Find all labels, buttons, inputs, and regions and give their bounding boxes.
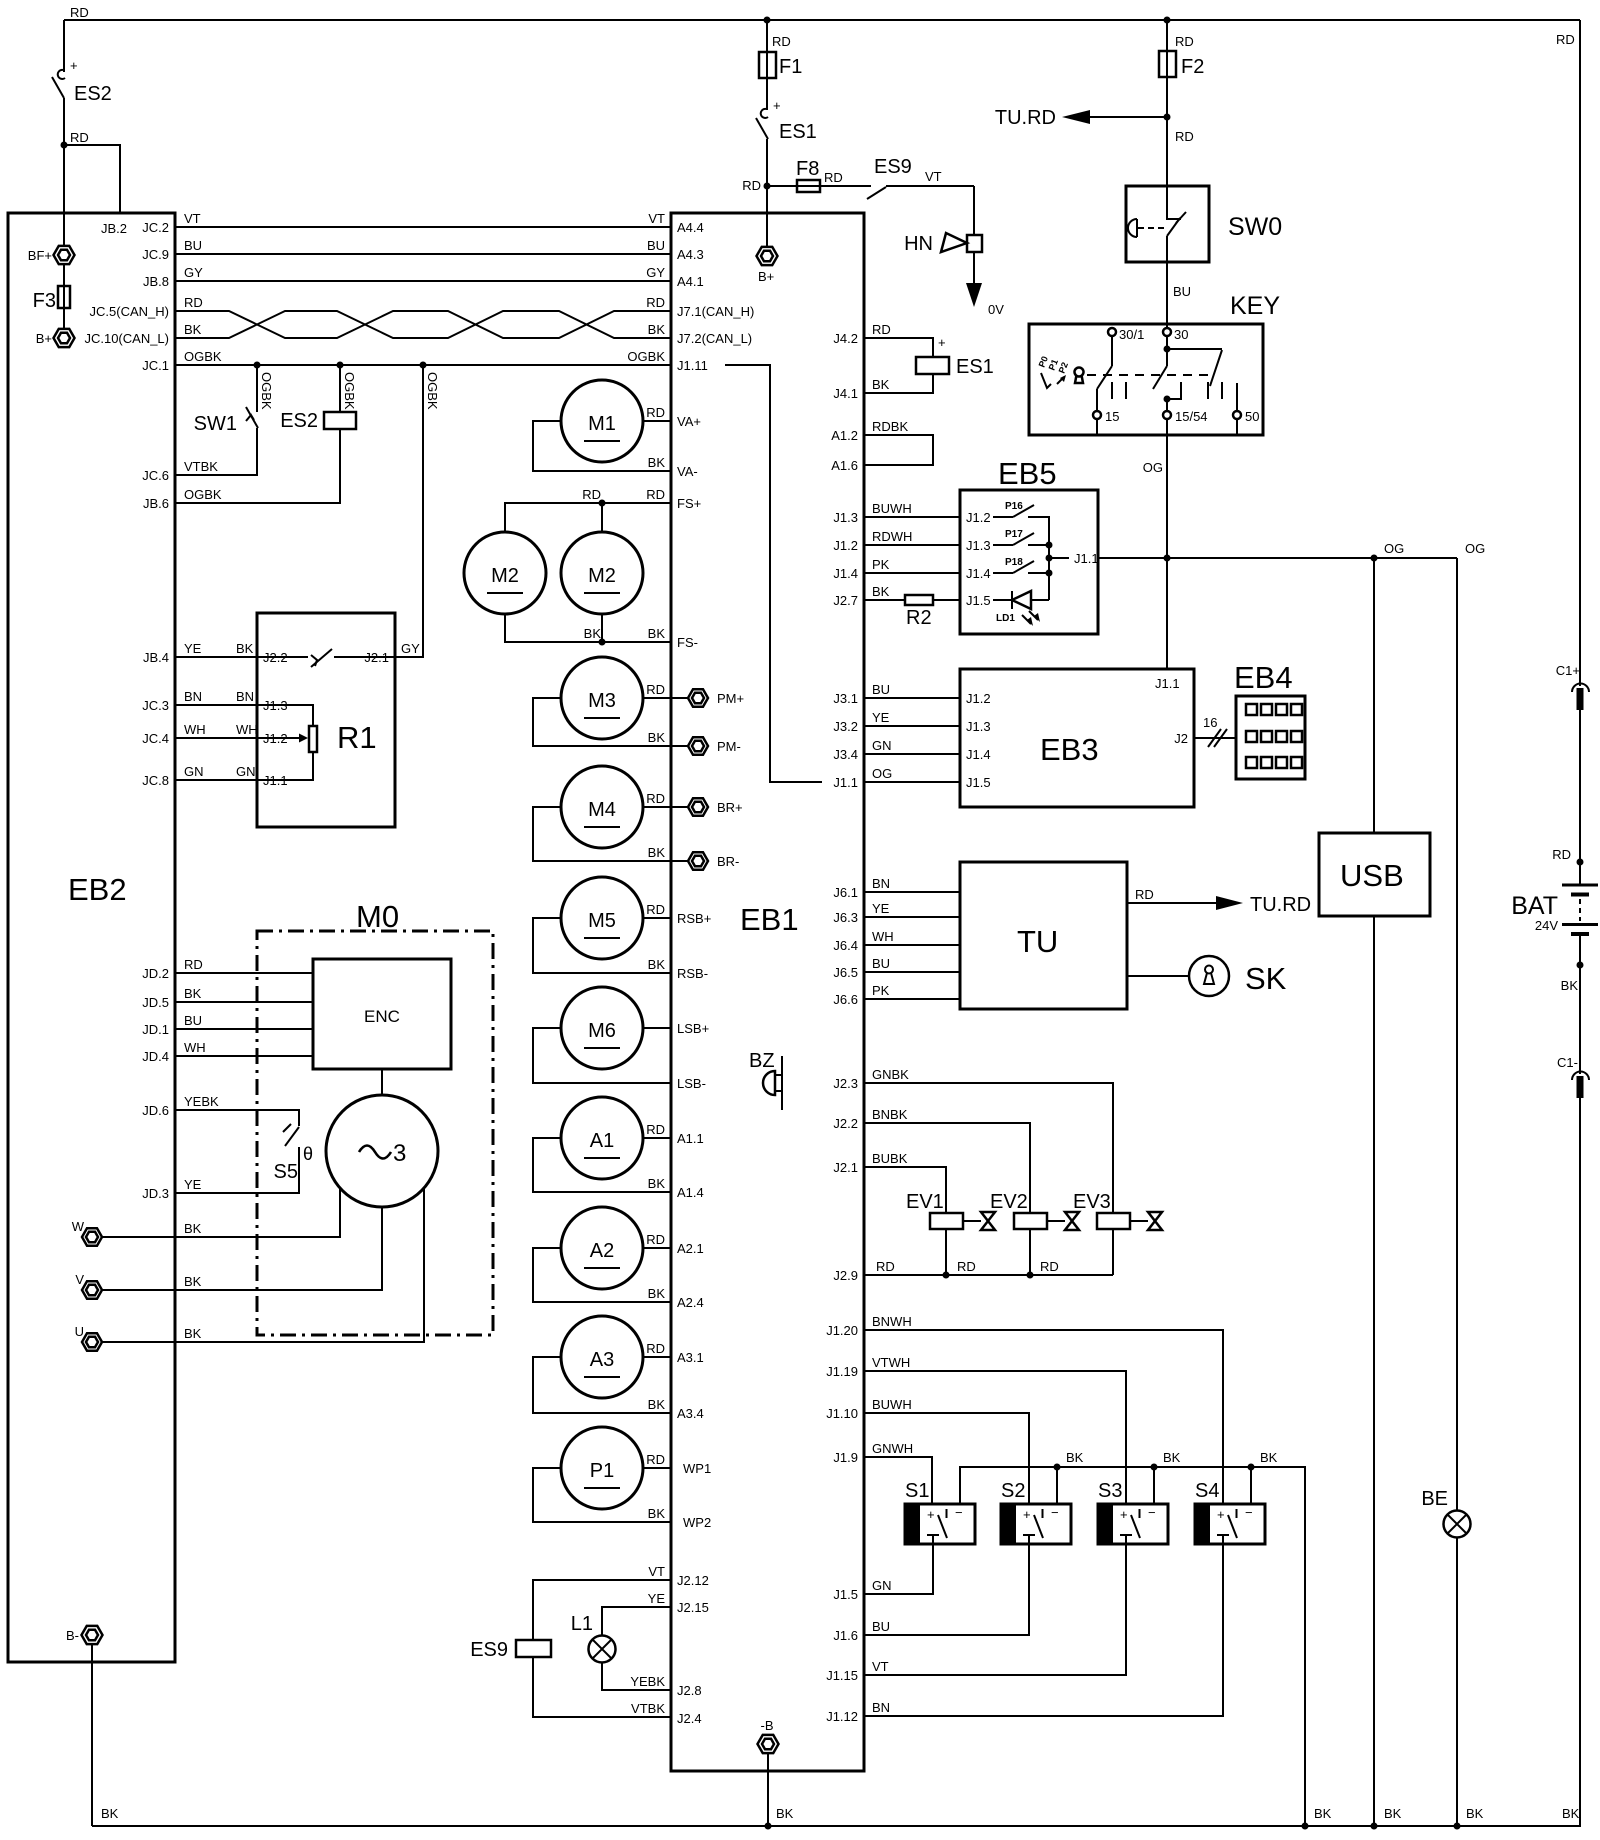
junction ES2 branch: [61, 142, 68, 149]
svg-text:RD: RD: [70, 130, 89, 145]
svg-text:J1.1: J1.1: [263, 773, 288, 788]
svg-text:F2: F2: [1181, 56, 1204, 78]
bolt BR-: [688, 852, 739, 869]
svg-text:J2.2: J2.2: [263, 650, 288, 665]
svg-text:ES2: ES2: [74, 83, 112, 105]
svg-text:RD: RD: [872, 322, 891, 337]
svg-text:JD.6: JD.6: [142, 1103, 169, 1118]
svg-text:FS-: FS-: [677, 635, 698, 650]
LED LD1: [993, 591, 1049, 626]
svg-text:J1.2: J1.2: [263, 731, 288, 746]
ECU box EB2: [8, 213, 175, 1662]
encoder ENC box: [313, 959, 451, 1069]
svg-text:PM+: PM+: [717, 691, 744, 706]
svg-text:J4.1: J4.1: [833, 386, 858, 401]
lamp L1: [571, 1591, 709, 1698]
svg-text:BU: BU: [184, 1013, 202, 1028]
svg-text:RDWH: RDWH: [872, 529, 912, 544]
svg-text:RD: RD: [646, 1341, 665, 1356]
svg-text:GN: GN: [872, 1578, 892, 1593]
svg-text:GN: GN: [236, 764, 256, 779]
svg-text:ES9: ES9: [470, 1639, 508, 1661]
svg-text:BNBK: BNBK: [872, 1107, 908, 1122]
svg-text:BNWH: BNWH: [872, 1314, 912, 1329]
wire U phase BK: [102, 1189, 424, 1342]
svg-text:EB5: EB5: [998, 456, 1057, 491]
svg-text:+: +: [70, 58, 78, 73]
svg-text:GNWH: GNWH: [872, 1441, 913, 1456]
svg-text:BK: BK: [1562, 1806, 1580, 1821]
bolt PM+: [688, 689, 744, 706]
svg-text:BK: BK: [872, 377, 890, 392]
thermal switch S5: [142, 1094, 313, 1201]
junction battery -: [1561, 962, 1584, 994]
switch SW1: [142, 365, 274, 483]
svg-text:JC.3: JC.3: [142, 698, 169, 713]
fuse F3: [33, 264, 70, 328]
svg-text:BU: BU: [872, 682, 890, 697]
fuse F1: [759, 20, 802, 110]
svg-text:M4: M4: [588, 799, 616, 821]
svg-text:VT: VT: [925, 169, 942, 184]
svg-text:BK: BK: [648, 1506, 666, 1521]
wire ENC to motor: [381, 1069, 383, 1095]
svg-text:BK: BK: [1561, 978, 1579, 993]
svg-text:30: 30: [1174, 327, 1188, 342]
svg-text:JC.2: JC.2: [142, 220, 169, 235]
wire BU J3.1 to EB3 J1.2: [833, 682, 990, 706]
svg-text:LSB-: LSB-: [677, 1076, 706, 1091]
svg-text:TU.RD: TU.RD: [995, 107, 1056, 129]
svg-text:J1.20: J1.20: [826, 1323, 858, 1338]
wire BK JD.5 to ENC: [142, 986, 313, 1010]
svg-text:BN: BN: [236, 689, 254, 704]
bolt B+ (EB1): [757, 247, 778, 284]
KEY terminal 15: [1093, 409, 1119, 435]
svg-text:RD: RD: [646, 791, 665, 806]
svg-text:BK: BK: [648, 322, 666, 337]
svg-text:A1.1: A1.1: [677, 1131, 704, 1146]
svg-text:J2: J2: [1174, 731, 1188, 746]
svg-text:RD: RD: [1135, 887, 1154, 902]
svg-text:A1.4: A1.4: [677, 1185, 704, 1200]
svg-text:BK: BK: [648, 1397, 666, 1412]
svg-text:RD: RD: [646, 902, 665, 917]
svg-text:JC.4: JC.4: [142, 731, 169, 746]
KEY pole 3: [1167, 349, 1237, 411]
svg-text:J1.3: J1.3: [833, 510, 858, 525]
svg-text:OG: OG: [1384, 541, 1404, 556]
svg-text:RD: RD: [184, 957, 203, 972]
key switch SW0: [1126, 186, 1282, 262]
svg-text:A2: A2: [590, 1240, 614, 1262]
wire VT J2.12 lamp feed: [533, 1564, 709, 1640]
svg-text:OGBK: OGBK: [259, 372, 274, 410]
svg-text:J2.1: J2.1: [364, 650, 389, 665]
svg-text:J3.2: J3.2: [833, 719, 858, 734]
wire PK J6.6 to TU: [833, 983, 960, 1007]
svg-text:JC.10(CAN_L): JC.10(CAN_L): [84, 331, 169, 346]
svg-text:+: +: [1120, 1507, 1128, 1522]
motor M2 left: [464, 532, 546, 614]
svg-text:J1.6: J1.6: [833, 1628, 858, 1643]
svg-text:YEBK: YEBK: [630, 1674, 665, 1689]
svg-text:A1.2: A1.2: [831, 428, 858, 443]
svg-text:M1: M1: [588, 413, 616, 435]
svg-text:RD: RD: [1175, 129, 1194, 144]
svg-text:−: −: [1245, 1505, 1253, 1520]
svg-text:BK: BK: [648, 730, 666, 745]
net arrow TU.RD (to TU): [995, 107, 1167, 129]
wire VTWH J1.19 to S3: [826, 1355, 1126, 1504]
wire GNWH J1.9 to S1: [833, 1441, 932, 1504]
svg-text:J2.12: J2.12: [677, 1573, 709, 1588]
wire BUBK J2.1 to EV1: [833, 1151, 946, 1213]
svg-text:M3: M3: [588, 690, 616, 712]
svg-text:GY: GY: [646, 265, 665, 280]
svg-text:30/1: 30/1: [1119, 327, 1144, 342]
switch inside R1: [311, 649, 395, 667]
svg-text:J1.1: J1.1: [1155, 676, 1180, 691]
svg-text:OGBK: OGBK: [425, 372, 440, 410]
bolt BF+: [28, 246, 75, 264]
svg-text:EB1: EB1: [740, 902, 799, 937]
svg-text:R2: R2: [906, 607, 932, 629]
junction top bus / F1: [764, 17, 771, 24]
svg-text:GY: GY: [401, 641, 420, 656]
svg-text:J1.4: J1.4: [966, 747, 991, 762]
svg-text:GN: GN: [184, 764, 204, 779]
internal link J1.11 to J1.1 inside EB1: [725, 365, 822, 782]
wire ES2 to EB2 JB.2: [64, 145, 120, 213]
wire GN J1.5 from S1: [833, 1578, 891, 1602]
wire BNBK J2.2 to EV2: [833, 1107, 1030, 1213]
solenoid valve EV3: [1073, 1191, 1162, 1275]
svg-text:RD: RD: [70, 5, 89, 20]
wire W phase BK: [102, 1189, 340, 1237]
actuator A2: [533, 1207, 704, 1310]
svg-text:RD: RD: [1040, 1259, 1059, 1274]
svg-text:JD.1: JD.1: [142, 1022, 169, 1037]
svg-text:RD: RD: [824, 170, 843, 185]
wire OG KEY 15/54 down to EB3: [1143, 435, 1167, 669]
wire top supply bus RD: [64, 5, 1580, 47]
wire BN J6.1 to TU: [833, 876, 960, 900]
control unit EB3: [960, 669, 1194, 807]
junction TU.RD tap: [1164, 114, 1171, 121]
horn HN: [904, 186, 982, 255]
wire BK sensor minus bus: [960, 1450, 1305, 1826]
svg-text:SW0: SW0: [1228, 213, 1282, 241]
svg-text:PK: PK: [872, 557, 890, 572]
wire OG J1.1 to EB3 J1.5: [833, 766, 990, 790]
svg-text:BZ: BZ: [749, 1050, 775, 1072]
svg-text:BR-: BR-: [717, 854, 739, 869]
svg-text:BU: BU: [184, 238, 202, 253]
svg-text:BU: BU: [872, 1619, 890, 1634]
svg-text:P1: P1: [590, 1460, 614, 1482]
svg-text:USB: USB: [1340, 858, 1404, 893]
svg-text:A3: A3: [590, 1349, 614, 1371]
KEY terminal 15/54: [1163, 409, 1208, 435]
sensor S3: [864, 1480, 1168, 1675]
svg-text:J2.2: J2.2: [833, 1116, 858, 1131]
switch P18: [993, 557, 1053, 577]
solenoid valve EV1: [906, 1191, 995, 1275]
svg-text:FS+: FS+: [677, 496, 701, 511]
wire BU SW0 to KEY 30: [1167, 262, 1191, 328]
KEY pole 2: [1153, 336, 1181, 411]
svg-text:BK: BK: [184, 986, 202, 1001]
wire RD JD.2 to ENC: [142, 957, 313, 981]
svg-text:SW1: SW1: [194, 413, 237, 435]
svg-text:WP2: WP2: [683, 1515, 711, 1530]
svg-text:J1.3: J1.3: [966, 538, 991, 553]
svg-text:+: +: [773, 98, 781, 113]
svg-text:BK: BK: [1066, 1450, 1084, 1465]
wire B- ground BK: [92, 1645, 119, 1826]
svg-text:−: −: [955, 1505, 963, 1520]
wire YE J3.2 to EB3 J1.3: [833, 710, 990, 734]
svg-text:BUWH: BUWH: [872, 501, 912, 516]
wire BU J1.6 from S2: [833, 1619, 890, 1643]
svg-text:TU: TU: [1017, 924, 1058, 959]
svg-text:BN: BN: [872, 876, 890, 891]
svg-text:ES1: ES1: [956, 356, 994, 378]
svg-text:J1.2: J1.2: [833, 538, 858, 553]
svg-text:J1.11: J1.11: [677, 358, 708, 373]
svg-text:RD: RD: [646, 1232, 665, 1247]
svg-text:ES1: ES1: [779, 121, 817, 143]
svg-text:A4.3: A4.3: [677, 247, 704, 262]
svg-text:BUWH: BUWH: [872, 1397, 912, 1412]
svg-text:J6.1: J6.1: [833, 885, 858, 900]
svg-text:JB.4: JB.4: [143, 650, 169, 665]
svg-text:J3.1: J3.1: [833, 691, 858, 706]
switch P17: [993, 529, 1053, 549]
svg-text:A3.1: A3.1: [677, 1350, 704, 1365]
svg-text:OG: OG: [1143, 460, 1163, 475]
svg-text:−: −: [1148, 1505, 1156, 1520]
svg-text:J7.2(CAN_L): J7.2(CAN_L): [677, 331, 752, 346]
wire RD J2.9 valve supply bus: [833, 1259, 1113, 1283]
svg-text:BK: BK: [648, 1286, 666, 1301]
svg-text:VT: VT: [648, 211, 665, 226]
svg-text:OGBK: OGBK: [342, 372, 357, 410]
sensor S4: [864, 1480, 1265, 1716]
svg-text:S3: S3: [1098, 1480, 1122, 1502]
svg-text:J1.3: J1.3: [966, 719, 991, 734]
junction OGBK / SW1: [254, 362, 261, 369]
KEY terminal 30: [1163, 327, 1188, 342]
battery BAT 24V: [1511, 885, 1598, 1074]
svg-text:BU: BU: [872, 956, 890, 971]
svg-text:BK: BK: [236, 641, 254, 656]
svg-text:+: +: [1217, 1507, 1225, 1522]
svg-text:A3.4: A3.4: [677, 1406, 704, 1421]
svg-text:L1: L1: [571, 1613, 593, 1635]
wire VT J1.15 from S3: [826, 1659, 888, 1683]
solenoid valve EV2: [990, 1191, 1079, 1275]
wire BU JD.1 to ENC: [142, 1013, 313, 1037]
svg-text:VT: VT: [872, 1659, 889, 1674]
svg-text:U: U: [75, 1324, 84, 1339]
bus 16 EB3 J2 to EB4: [1194, 715, 1236, 747]
ECU box EB1: [671, 213, 864, 1771]
KEY junction 30: [1164, 346, 1171, 353]
wire FS+ RD: [505, 487, 701, 532]
junction OGBK / R1: [420, 362, 427, 369]
svg-text:−: −: [1051, 1505, 1059, 1520]
bolt W: [72, 1219, 102, 1246]
svg-text:J2.3: J2.3: [833, 1076, 858, 1091]
svg-text:JB.8: JB.8: [143, 274, 169, 289]
svg-text:EB3: EB3: [1040, 732, 1099, 767]
svg-text:S1: S1: [905, 1480, 929, 1502]
svg-text:J1.12: J1.12: [826, 1709, 858, 1724]
wire FS- BK: [505, 614, 698, 650]
resistor R2: [833, 584, 990, 629]
wire GNBK J2.3 to EV3: [833, 1067, 1113, 1213]
wire ES2 down to BF+: [63, 145, 65, 245]
svg-text:BK: BK: [184, 322, 202, 337]
svg-text:50: 50: [1245, 409, 1259, 424]
motor M2 right: [561, 532, 643, 614]
svg-text:J6.3: J6.3: [833, 910, 858, 925]
wire BN J1.12 from S4: [826, 1700, 890, 1724]
svg-text:EV2: EV2: [990, 1191, 1028, 1213]
svg-text:+: +: [927, 1507, 935, 1522]
svg-text:J2.15: J2.15: [677, 1600, 709, 1615]
potentiometer unit R1 box: [257, 613, 395, 827]
svg-text:BK: BK: [1260, 1450, 1278, 1465]
wire WH JD.4 to ENC: [142, 1040, 313, 1064]
svg-text:S5: S5: [274, 1161, 298, 1183]
svg-text:YE: YE: [872, 901, 890, 916]
svg-text:15: 15: [1105, 409, 1119, 424]
svg-text:F3: F3: [33, 290, 56, 312]
svg-text:JC.6: JC.6: [142, 468, 169, 483]
wire WH JC.4 wiper arrow: [142, 722, 308, 746]
svg-text:V: V: [75, 1272, 84, 1287]
svg-text:KEY: KEY: [1230, 292, 1280, 320]
svg-text:RD: RD: [876, 1259, 895, 1274]
svg-text:RD: RD: [957, 1259, 976, 1274]
svg-text:J7.1(CAN_H): J7.1(CAN_H): [677, 304, 754, 319]
wire OG EB5 J1.1 output row: [1098, 541, 1485, 562]
buzzer BZ: [749, 1050, 782, 1110]
sensor S2: [864, 1480, 1071, 1635]
wire BUWH J1.3 to EB5 J1.2: [833, 501, 990, 525]
svg-text:J6.5: J6.5: [833, 965, 858, 980]
wire YE JB.4 to R1 J2.2: [143, 641, 308, 665]
svg-text:J1.15: J1.15: [826, 1668, 858, 1683]
fuse F8: [767, 158, 871, 192]
svg-text:BK: BK: [1466, 1806, 1484, 1821]
svg-text:J2.1: J2.1: [833, 1160, 858, 1175]
svg-text:BAT: BAT: [1511, 892, 1558, 920]
svg-text:YE: YE: [872, 710, 890, 725]
svg-text:GNBK: GNBK: [872, 1067, 909, 1082]
svg-text:ES9: ES9: [874, 156, 912, 178]
svg-text:JB.2: JB.2: [101, 221, 127, 236]
KEY pole 1: [1097, 336, 1126, 411]
svg-text:J1.1: J1.1: [833, 775, 858, 790]
wire YE J6.3 to TU: [833, 901, 960, 925]
wire OGBK to R1 J2.1: [395, 365, 440, 657]
bolt B+ (EB2): [36, 329, 75, 347]
svg-text:B-: B-: [66, 1628, 79, 1643]
antenna SK: [1127, 956, 1287, 996]
junction F8 branch: [764, 183, 771, 190]
svg-text:J1.5: J1.5: [833, 1587, 858, 1602]
svg-text:J1.1: J1.1: [1074, 551, 1099, 566]
wire VT JC.2 to A4.4: [142, 211, 703, 235]
svg-text:LSB+: LSB+: [677, 1021, 709, 1036]
svg-text:RD: RD: [646, 295, 665, 310]
svg-text:OGBK: OGBK: [184, 349, 222, 364]
svg-text:J1.5: J1.5: [966, 593, 991, 608]
svg-text:BK: BK: [1314, 1806, 1332, 1821]
wire CAN_L BK twisted pair: [84, 311, 752, 346]
display EB4: [1234, 660, 1305, 779]
svg-text:BK: BK: [184, 1221, 202, 1236]
lamp BE: [1421, 558, 1470, 1826]
svg-text:OG: OG: [872, 766, 892, 781]
svg-text:RSB+: RSB+: [677, 911, 711, 926]
svg-text:M0: M0: [356, 899, 399, 934]
svg-text:J3.4: J3.4: [833, 747, 858, 762]
net arrow TU.RD (from TU): [1127, 887, 1311, 916]
svg-text:3: 3: [393, 1140, 406, 1167]
wire down to B+ bolt EB1: [766, 186, 768, 246]
svg-text:BF+: BF+: [28, 248, 52, 263]
svg-text:P16: P16: [1005, 501, 1023, 512]
sensor S1: [864, 1480, 975, 1594]
svg-text:EV1: EV1: [906, 1191, 944, 1213]
ground arrow 0V: [966, 252, 1004, 317]
svg-text:ES2: ES2: [280, 410, 318, 432]
bolt V: [75, 1272, 102, 1299]
svg-text:YE: YE: [184, 641, 202, 656]
svg-text:RD: RD: [1552, 847, 1571, 862]
svg-text:BK: BK: [648, 1176, 666, 1191]
svg-text:RSB-: RSB-: [677, 966, 708, 981]
svg-text:BK: BK: [184, 1274, 202, 1289]
svg-text:J6.6: J6.6: [833, 992, 858, 1007]
svg-text:RD: RD: [582, 487, 601, 502]
svg-text:J1.10: J1.10: [826, 1406, 858, 1421]
svg-text:BK: BK: [648, 845, 666, 860]
svg-text:BK: BK: [1163, 1450, 1181, 1465]
potentiometer R1 element: [309, 726, 317, 752]
KEY lock glyph and positions P0 P1 P2: [1037, 355, 1208, 388]
svg-text:J1.19: J1.19: [826, 1364, 858, 1379]
switch ES2 (battery master, top left): [52, 20, 112, 145]
svg-text:BK: BK: [648, 626, 666, 641]
svg-text:J4.2: J4.2: [833, 331, 858, 346]
motor M4 (brush): [533, 766, 688, 861]
svg-text:RD: RD: [1556, 32, 1575, 47]
svg-text:P18: P18: [1005, 557, 1023, 568]
ignition switch KEY: [1029, 292, 1280, 435]
svg-text:VT: VT: [648, 1564, 665, 1579]
svg-text:F1: F1: [779, 56, 802, 78]
svg-text:OGBK: OGBK: [184, 487, 222, 502]
svg-text:J2.9: J2.9: [833, 1268, 858, 1283]
svg-text:W: W: [72, 1219, 85, 1234]
wire BN JC.3 to R1 J1.3: [142, 689, 313, 726]
